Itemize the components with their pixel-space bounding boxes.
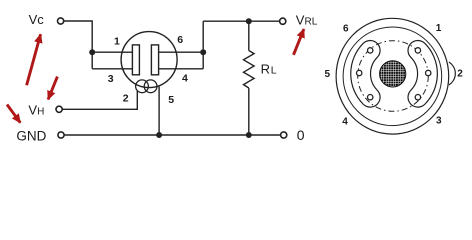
red arrow to VH [48, 77, 57, 100]
junction node resistor/GND [246, 132, 252, 138]
package pin 6 hole [368, 48, 373, 53]
wire pin 4 [159, 68, 204, 70]
terminal 0 [281, 132, 287, 138]
heater bump right [144, 80, 157, 93]
terminal Vc [58, 18, 64, 24]
svg-text:3: 3 [436, 116, 442, 127]
junction node Vc/pin1 [89, 49, 95, 55]
pin slot right [418, 50, 428, 97]
package rim circle [343, 27, 442, 126]
svg-text:5: 5 [168, 94, 174, 106]
sensor envelope circle [121, 32, 177, 88]
package pin 3 hole [415, 95, 420, 100]
heater bump left [136, 80, 149, 93]
wire Vc to left vertical [64, 21, 92, 69]
junction node top resistor [246, 18, 252, 24]
svg-text:Vc: Vc [29, 12, 45, 27]
wire pin 3 [92, 68, 133, 70]
junction node pin5/GND [156, 132, 162, 138]
package pitch circle dash-dot [358, 41, 429, 112]
terminal VH [56, 106, 62, 112]
wire pin 1 [92, 51, 133, 53]
svg-text:2: 2 [123, 92, 129, 104]
svg-text:2: 2 [457, 68, 463, 79]
junction node pin6 [200, 49, 206, 55]
electrode plate right [151, 45, 158, 75]
terminal GND [58, 132, 64, 138]
red arrow to GND [7, 105, 20, 123]
red arrow to VRL [294, 29, 304, 55]
resistor RL zigzag [244, 51, 255, 88]
svg-text:3: 3 [108, 73, 114, 85]
package pin 4 hole [368, 95, 373, 100]
package pin 5 hole [357, 70, 362, 75]
svg-text:0: 0 [297, 127, 305, 143]
sensing element center [380, 61, 406, 87]
svg-text:4: 4 [342, 116, 348, 127]
electrode plate left [132, 45, 139, 75]
svg-text:GND: GND [16, 128, 46, 143]
wire top to VRL [203, 20, 279, 22]
wire pin 6 [159, 51, 204, 53]
package pin 1 hole [415, 48, 420, 53]
wire pin 5 [158, 87, 160, 136]
svg-text:6: 6 [177, 34, 183, 46]
terminal VRL [280, 18, 286, 24]
svg-text:5: 5 [325, 69, 331, 80]
svg-text:4: 4 [182, 72, 188, 84]
svg-text:1: 1 [436, 23, 442, 34]
svg-text:6: 6 [343, 24, 349, 35]
svg-text:1: 1 [114, 36, 120, 48]
index tab [449, 62, 455, 85]
pin slot left [361, 50, 371, 97]
wire right vertical [202, 21, 204, 69]
svg-text:RL: RL [261, 62, 277, 77]
package pin 2 hole [426, 70, 431, 75]
package outer circle [336, 18, 449, 134]
wire GND to 0 [64, 134, 280, 136]
resistor RL leads [248, 21, 250, 135]
red arrow to Vc [27, 34, 41, 85]
wire VH to pin 2 [62, 91, 137, 110]
